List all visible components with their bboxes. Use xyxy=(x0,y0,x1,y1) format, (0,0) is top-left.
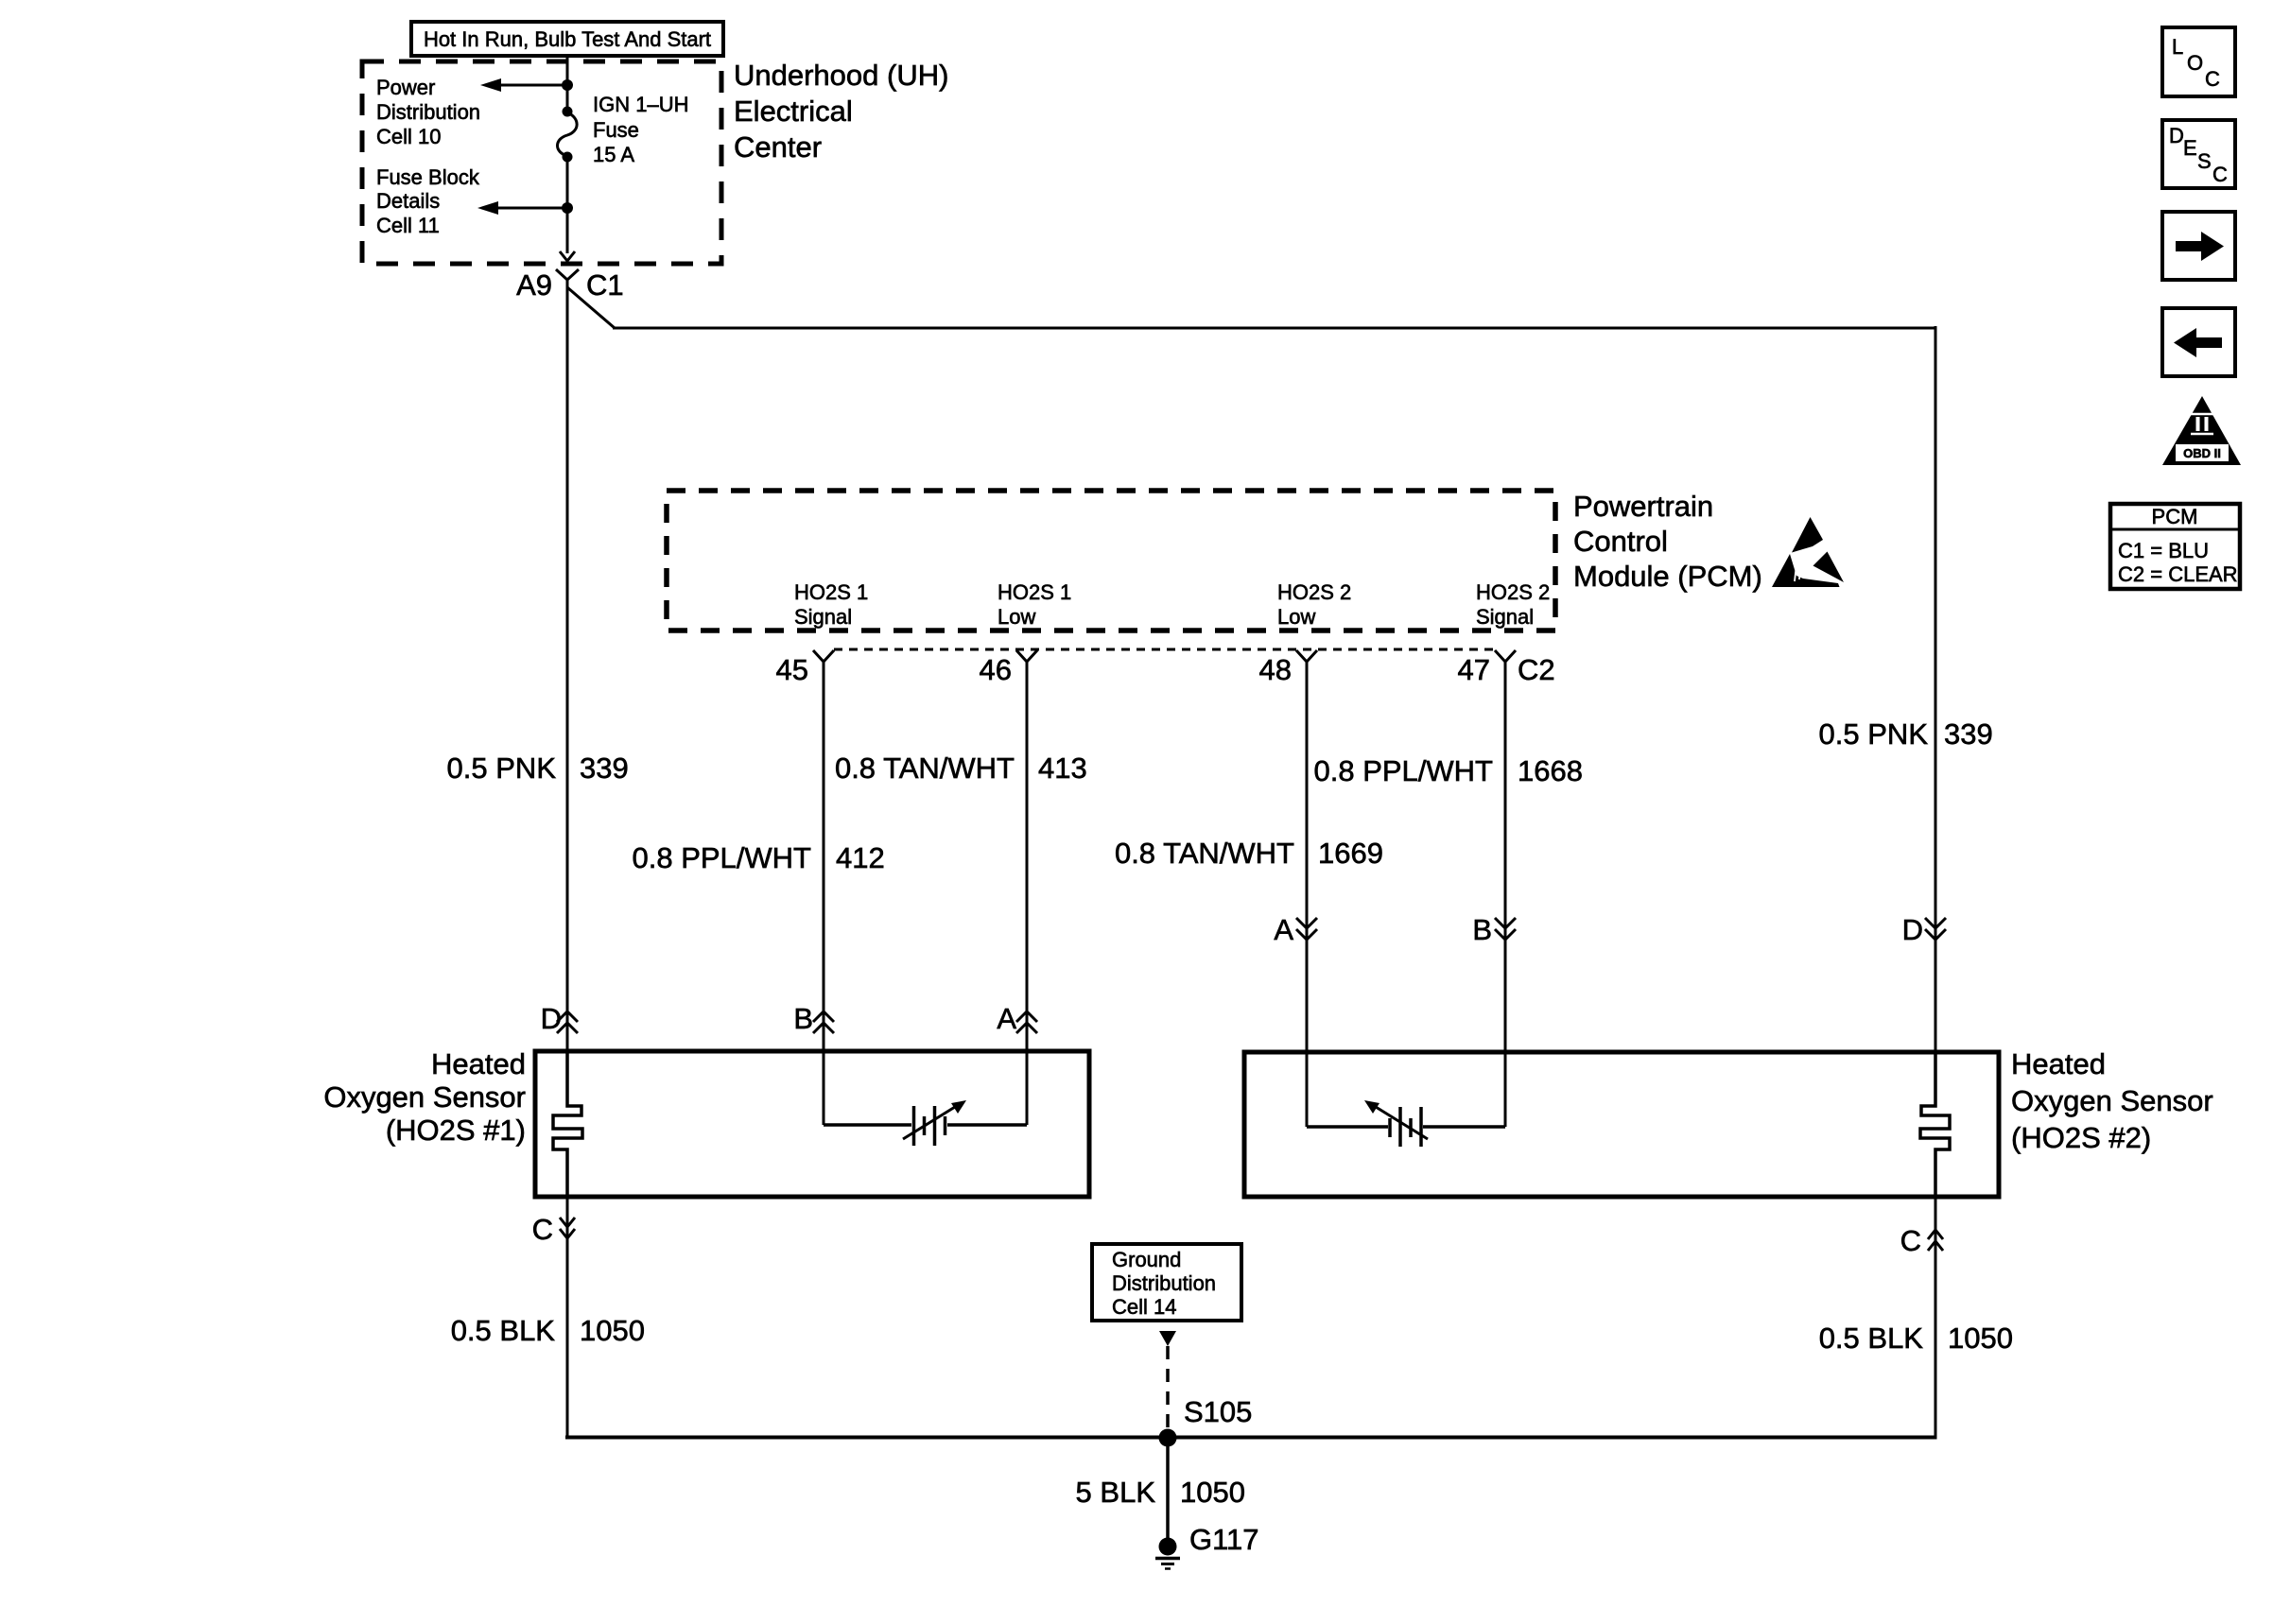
svg-text:0.5 BLK: 0.5 BLK xyxy=(451,1314,556,1347)
svg-text:Ground: Ground xyxy=(1112,1248,1181,1271)
svg-text:0.8 TAN/WHT: 0.8 TAN/WHT xyxy=(1115,837,1294,870)
svg-text:B: B xyxy=(793,1002,813,1035)
label: HO2S 2 Signal (pin 47) xyxy=(1476,580,1550,629)
icon: LOC box xyxy=(2162,27,2235,96)
svg-text:Low: Low xyxy=(1277,605,1315,629)
svg-text:Fuse: Fuse xyxy=(593,118,639,142)
svg-text:Distribution: Distribution xyxy=(376,100,480,124)
svg-text:S105: S105 xyxy=(1184,1395,1252,1428)
svg-text:A: A xyxy=(1274,913,1293,946)
svg-text:Hot In Run, Bulb Test And Star: Hot In Run, Bulb Test And Start xyxy=(424,27,711,51)
label: Power Distribution Cell 10 xyxy=(376,76,480,148)
icon: OBD II triangle xyxy=(2162,396,2241,465)
svg-text:1668: 1668 xyxy=(1518,754,1583,787)
svg-text:Heated: Heated xyxy=(431,1047,526,1080)
wire label: 0.8 PPL/WHT 412 xyxy=(633,841,885,874)
dashed box: Powertrain Control Module (PCM) xyxy=(667,491,1555,631)
component box: Heated Oxygen Sensor (HO2S #2) xyxy=(1244,1052,1999,1197)
connector D (left, chevrons up) xyxy=(541,1002,578,1035)
svg-text:Electrical: Electrical xyxy=(734,95,853,128)
pin 47 terminal xyxy=(1495,650,1516,662)
svg-text:HO2S 1: HO2S 1 xyxy=(794,580,868,604)
svg-text:Low: Low xyxy=(998,605,1035,629)
svg-text:C: C xyxy=(2212,163,2228,186)
svg-text:0.5 PNK: 0.5 PNK xyxy=(1819,717,1929,751)
wire: top horizontal run to HO2S #2 xyxy=(613,327,1935,330)
svg-text:1050: 1050 xyxy=(1180,1476,1245,1509)
connector C (right, chevrons up) xyxy=(1900,1224,1943,1257)
junction node to Power Distribution xyxy=(562,79,573,91)
arrowhead from Ground Distribution xyxy=(1159,1331,1176,1346)
wire: ignition feed from Hot In Run box xyxy=(566,55,569,112)
svg-text:48: 48 xyxy=(1259,653,1292,686)
svg-text:Oxygen Sensor: Oxygen Sensor xyxy=(2011,1084,2213,1117)
svg-text:PCM: PCM xyxy=(2152,505,2198,528)
label: Powertrain Control Module (PCM) xyxy=(1573,490,1762,593)
connector C (left, chevrons down) xyxy=(532,1213,575,1246)
wire label: 5 BLK 1050 xyxy=(1076,1476,1245,1509)
svg-text:1050: 1050 xyxy=(580,1314,645,1347)
wire: 0.5 BLK 1050 left xyxy=(566,1197,569,1439)
sensor element HO2S #1 (variable cell) xyxy=(824,1100,1027,1146)
svg-text:D: D xyxy=(2169,124,2184,147)
connector A (right, chevrons down) xyxy=(1274,913,1317,946)
svg-text:Underhood (UH): Underhood (UH) xyxy=(734,59,948,92)
arrow to Power Distribution Cell 10 xyxy=(480,78,567,92)
svg-text:A: A xyxy=(997,1002,1016,1035)
label: HO2S 1 Low (pin 46) xyxy=(998,580,1071,629)
svg-text:C1: C1 xyxy=(586,268,624,302)
wire label: 0.5 PNK 339 (left) xyxy=(447,752,629,785)
label: Heated Oxygen Sensor (HO2S #2) xyxy=(2011,1047,2213,1154)
wire: branch diagonal to right run xyxy=(567,287,615,328)
label: Fuse Block Details Cell 11 xyxy=(376,165,480,237)
svg-text:0.8 PPL/WHT: 0.8 PPL/WHT xyxy=(1314,754,1494,787)
wire label: 0.8 TAN/WHT 413 xyxy=(835,752,1087,785)
icon: DESC box xyxy=(2162,120,2235,188)
svg-text:0.8 TAN/WHT: 0.8 TAN/WHT xyxy=(835,752,1015,785)
svg-text:Center: Center xyxy=(734,130,822,164)
component box: Heated Oxygen Sensor (HO2S #1) xyxy=(535,1051,1089,1197)
wire: 0.5 PNK 339 right vertical xyxy=(1935,326,1937,1052)
dashed box: Underhood (UH) Electrical Center xyxy=(362,61,721,264)
svg-text:Cell 14: Cell 14 xyxy=(1112,1295,1176,1319)
ground G117 xyxy=(1155,1538,1180,1569)
label: IGN 1-UH Fuse 15 A xyxy=(593,93,688,166)
svg-text:Oxygen Sensor: Oxygen Sensor xyxy=(323,1080,526,1114)
svg-text:Cell 11: Cell 11 xyxy=(376,214,440,237)
svg-text:Heated: Heated xyxy=(2011,1047,2106,1080)
label: Heated Oxygen Sensor (HO2S #1) xyxy=(323,1047,526,1147)
svg-text:15 A: 15 A xyxy=(593,143,634,166)
svg-text:Distribution: Distribution xyxy=(1112,1271,1216,1295)
svg-text:5 BLK: 5 BLK xyxy=(1076,1476,1156,1509)
svg-text:D: D xyxy=(1902,913,1923,946)
svg-text:0.5 BLK: 0.5 BLK xyxy=(1819,1322,1924,1355)
svg-text:D: D xyxy=(541,1002,562,1035)
svg-text:C: C xyxy=(1900,1224,1921,1257)
icon: arrow right box xyxy=(2162,212,2235,280)
svg-text:1669: 1669 xyxy=(1318,837,1383,870)
fuse F: IGN 1-UH Fuse 15 A xyxy=(558,107,578,163)
svg-text:HO2S 2: HO2S 2 xyxy=(1277,580,1351,604)
wire label: 0.8 TAN/WHT 1669 xyxy=(1115,837,1383,870)
svg-text:0.5 PNK: 0.5 PNK xyxy=(447,752,557,785)
connector A (left, chevrons up) xyxy=(997,1002,1037,1035)
sensor element HO2S #2 (variable cell) xyxy=(1307,1100,1505,1147)
svg-text:O: O xyxy=(2187,51,2203,75)
svg-text:C2 = CLEAR: C2 = CLEAR xyxy=(2118,562,2238,586)
box: Ground Distribution Cell 14 xyxy=(1092,1244,1241,1321)
wire: 0.8 PPL/WHT 412 (pin 45 to HO2S #1 B) xyxy=(823,662,825,1125)
svg-text:E: E xyxy=(2183,136,2197,160)
svg-text:46: 46 xyxy=(980,653,1012,686)
svg-text:C: C xyxy=(2205,67,2220,91)
legend box: PCM connectors xyxy=(2110,504,2240,589)
svg-text:Control: Control xyxy=(1573,525,1668,558)
svg-text:OBD II: OBD II xyxy=(2183,446,2221,460)
svg-text:Signal: Signal xyxy=(794,605,852,629)
svg-text:Module (PCM): Module (PCM) xyxy=(1573,560,1762,593)
wire: 0.5 BLK 1050 right xyxy=(1935,1197,1937,1439)
svg-text:A9: A9 xyxy=(516,268,552,302)
heater element HO2S #1 xyxy=(553,1051,582,1197)
svg-text:HO2S 2: HO2S 2 xyxy=(1476,580,1550,604)
connector B (left, chevrons up) xyxy=(793,1002,834,1035)
ESD warning symbol xyxy=(1772,517,1844,587)
svg-text:C2: C2 xyxy=(1518,653,1555,686)
wire label: 0.8 PPL/WHT 1668 xyxy=(1314,754,1583,787)
pin 46 terminal xyxy=(1016,650,1037,662)
svg-text:Power: Power xyxy=(376,76,435,99)
connector D (right, chevrons down) xyxy=(1902,913,1946,946)
svg-text:339: 339 xyxy=(580,752,629,785)
arrowhead into connector A9 xyxy=(560,251,575,261)
icon: arrow left box xyxy=(2162,308,2235,376)
heater element HO2S #2 xyxy=(1920,1052,1950,1197)
svg-text:Fuse Block: Fuse Block xyxy=(376,165,480,189)
svg-text:G117: G117 xyxy=(1189,1523,1259,1556)
wire: 0.5 PNK 339 left vertical xyxy=(566,280,569,1051)
wire: 0.8 TAN/WHT 413 (pin 46 to HO2S #1 A) xyxy=(1026,662,1029,1125)
wire: 0.8 TAN/WHT 1669 (pin 48 to HO2S #2 A) xyxy=(1306,662,1309,1127)
svg-text:S: S xyxy=(2197,149,2212,173)
connector B (right, chevrons down) xyxy=(1472,913,1516,946)
svg-text:Powertrain: Powertrain xyxy=(1573,490,1713,523)
svg-text:IGN 1–UH: IGN 1–UH xyxy=(593,93,688,116)
svg-text:HO2S 1: HO2S 1 xyxy=(998,580,1071,604)
dotted connector face line C1/C2 of PCM xyxy=(834,648,1496,651)
svg-text:45: 45 xyxy=(776,653,808,686)
svg-text:Cell 10: Cell 10 xyxy=(376,125,441,148)
dashed wire to S105 xyxy=(1166,1346,1170,1436)
svg-text:(HO2S #1): (HO2S #1) xyxy=(386,1114,526,1147)
pin 48 terminal xyxy=(1296,650,1317,662)
svg-text:412: 412 xyxy=(836,841,885,874)
svg-text:L: L xyxy=(2172,35,2183,59)
wire label: 0.5 BLK 1050 (left) xyxy=(451,1314,645,1347)
svg-text:47: 47 xyxy=(1458,653,1490,686)
svg-text:Details: Details xyxy=(376,189,440,213)
wire: 0.8 PPL/WHT 1668 (pin 47 to HO2S #2 B) xyxy=(1504,662,1507,1127)
wire: 5 BLK 1050 to ground xyxy=(1166,1438,1170,1541)
label: Underhood (UH) Electrical Center xyxy=(734,59,948,164)
wire label: 0.5 BLK 1050 (right) xyxy=(1819,1322,2013,1355)
svg-text:C: C xyxy=(532,1213,553,1246)
wire label: 0.5 PNK 339 (right) xyxy=(1819,717,1993,751)
junction node to Fuse Block Details xyxy=(562,202,573,214)
pin 45 terminal xyxy=(813,650,834,662)
svg-text:Signal: Signal xyxy=(1476,605,1534,629)
box: Hot In Run, Bulb Test And Start xyxy=(411,22,723,56)
connector A9 / C1 (female terminal) xyxy=(556,269,579,280)
svg-text:B: B xyxy=(1472,913,1492,946)
svg-text:413: 413 xyxy=(1038,752,1087,785)
svg-text:339: 339 xyxy=(1944,717,1993,751)
wire: ground bus xyxy=(565,1436,1937,1440)
svg-text:0.8 PPL/WHT: 0.8 PPL/WHT xyxy=(633,841,812,874)
label: HO2S 2 Low (pin 48) xyxy=(1277,580,1351,629)
svg-text:(HO2S #2): (HO2S #2) xyxy=(2011,1121,2151,1154)
label: HO2S 1 Signal (pin 45) xyxy=(794,580,868,629)
svg-text:C1 = BLU: C1 = BLU xyxy=(2118,539,2209,562)
splice S105 xyxy=(1159,1429,1177,1447)
arrow to Fuse Block Details Cell 11 xyxy=(477,201,567,215)
svg-text:1050: 1050 xyxy=(1948,1322,2013,1355)
